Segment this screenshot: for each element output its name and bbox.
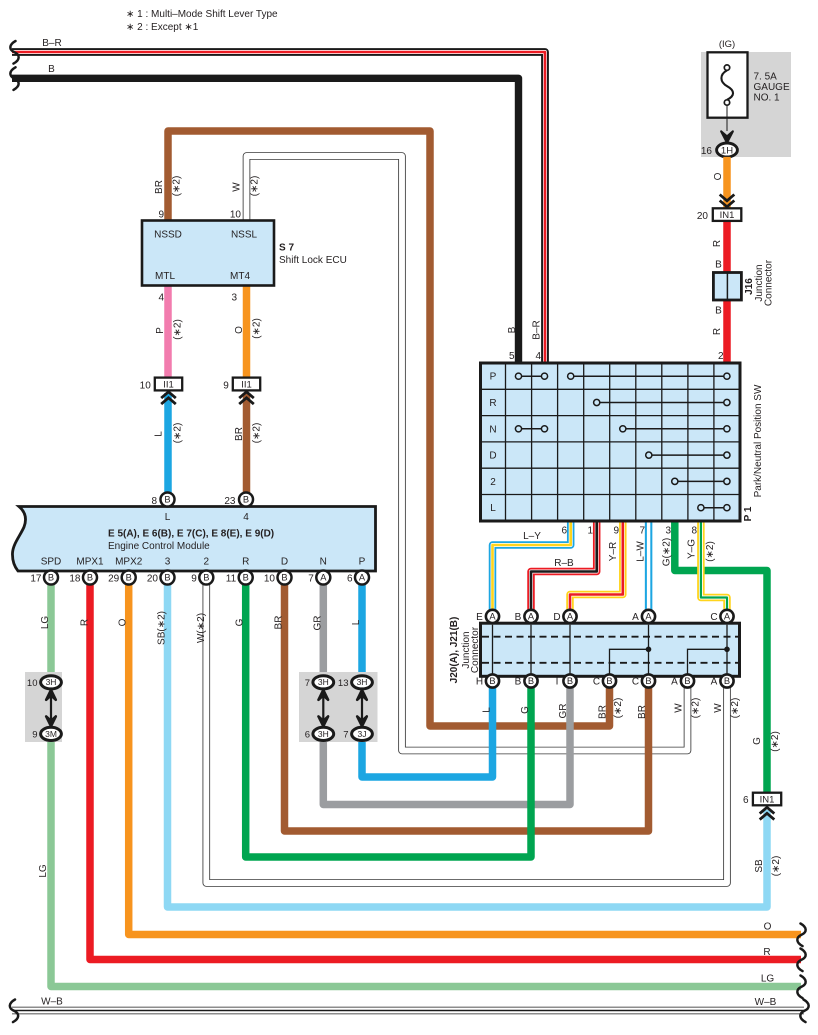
chevron into IN1 pin 20 <box>720 195 735 207</box>
svg-text:A: A <box>567 612 574 622</box>
svg-text:O: O <box>713 172 724 180</box>
junction connector J20(A) J21(B) <box>449 617 740 684</box>
svg-text:GR: GR <box>313 616 324 631</box>
svg-text:BR: BR <box>234 427 245 441</box>
wire O from 1H to IN1 pin 20 <box>713 157 727 208</box>
svg-text:R: R <box>489 398 496 409</box>
svg-text:C: C <box>710 612 717 623</box>
wire Y-G from P1 pin 8 to J20 pin C(A) <box>687 521 728 611</box>
svg-text:9: 9 <box>158 210 164 221</box>
svg-text:B: B <box>515 677 522 688</box>
svg-text:6: 6 <box>347 573 353 584</box>
svg-text:18: 18 <box>69 573 81 584</box>
svg-text:B: B <box>528 676 534 686</box>
svg-text:L: L <box>490 503 496 514</box>
svg-text:8: 8 <box>151 496 157 507</box>
P1 bottom pin numbers 6 1 9 7 3 8 <box>561 526 697 537</box>
svg-text:G: G <box>752 737 763 745</box>
svg-text:17: 17 <box>30 573 42 584</box>
J20 top pins E B D A C <box>476 610 733 623</box>
svg-text:P: P <box>490 372 497 383</box>
svg-text:D: D <box>553 612 560 623</box>
svg-text:W–B: W–B <box>755 997 777 1008</box>
svg-text:W: W <box>674 703 685 713</box>
contact row R <box>594 399 730 405</box>
svg-text:B: B <box>606 676 612 686</box>
svg-text:BR: BR <box>274 616 285 630</box>
svg-text:B: B <box>489 676 495 686</box>
svg-text:20: 20 <box>697 211 709 222</box>
svg-text:Shift Lock ECU: Shift Lock ECU <box>279 255 347 266</box>
svg-text:(∗2): (∗2) <box>730 698 741 719</box>
svg-text:SB: SB <box>754 859 765 873</box>
svg-text:A: A <box>528 612 535 622</box>
svg-text:G: G <box>520 706 531 714</box>
svg-text:LG: LG <box>761 974 775 985</box>
svg-text:SPD: SPD <box>41 557 62 568</box>
svg-text:Y–G: Y–G <box>687 539 698 559</box>
svg-text:3M: 3M <box>45 729 57 739</box>
svg-text:G(∗2): G(∗2) <box>662 538 673 566</box>
connector IN1 pin 20 <box>697 208 741 222</box>
svg-text:(∗2): (∗2) <box>173 319 184 340</box>
svg-text:I: I <box>556 677 559 688</box>
svg-text:Park/Neutral Position SW: Park/Neutral Position SW <box>753 384 764 497</box>
junction connector J16 <box>713 259 774 306</box>
svg-text:2: 2 <box>718 351 724 362</box>
svg-text:NO. 1: NO. 1 <box>754 93 781 104</box>
switch P1 Park/Neutral Position SW <box>481 363 741 521</box>
svg-text:IN1: IN1 <box>760 794 775 805</box>
ECM bottom pins 17 18 29 20 9 11 10 7 6 <box>30 571 369 585</box>
wire SB from ECM pin 3 to IN1 pin 6 <box>157 578 783 908</box>
svg-text:H: H <box>476 677 483 688</box>
svg-text:W: W <box>232 182 243 192</box>
ECU S7 Shift Lock ECU <box>142 210 347 304</box>
connector II1 pin 10 <box>140 378 183 392</box>
contact row 2 <box>672 478 730 484</box>
svg-text:23: 23 <box>224 496 236 507</box>
svg-text:(∗2): (∗2) <box>771 856 782 877</box>
svg-text:B: B <box>715 260 722 271</box>
wire B from left break to P1 pin 5 <box>12 64 519 363</box>
svg-text:SB(∗2): SB(∗2) <box>157 611 168 645</box>
svg-text:16: 16 <box>701 146 713 157</box>
svg-text:9: 9 <box>223 380 229 391</box>
svg-text:3H: 3H <box>318 729 329 739</box>
svg-text:B: B <box>281 573 287 583</box>
svg-text:9: 9 <box>32 729 37 740</box>
svg-text:P: P <box>359 557 366 568</box>
svg-text:(∗2): (∗2) <box>173 423 184 444</box>
chevron into II1 pin 9 <box>239 392 254 404</box>
ECU E5(A) E6(B) E7(C) E8(E) E9(D) Engine Control Module <box>12 507 375 572</box>
contact row N <box>515 426 730 432</box>
svg-text:W(∗2): W(∗2) <box>196 613 207 643</box>
svg-text:29: 29 <box>108 573 120 584</box>
svg-text:B: B <box>645 676 651 686</box>
wire P pink from S7 MTL to II1 pin 10 <box>155 286 184 379</box>
svg-text:LG: LG <box>40 616 51 630</box>
svg-text:3H: 3H <box>46 677 57 687</box>
svg-text:(∗2): (∗2) <box>252 423 263 444</box>
svg-text:3: 3 <box>165 557 171 568</box>
svg-text:Connector: Connector <box>470 626 481 673</box>
wire R long from ECM MPX1 to right break <box>80 578 802 960</box>
J20 bottom pins H B I C C A A <box>476 674 734 687</box>
svg-text:II1: II1 <box>241 379 252 390</box>
svg-text:2: 2 <box>490 477 496 488</box>
svg-text:C: C <box>593 677 600 688</box>
svg-text:B: B <box>48 64 55 75</box>
svg-text:5: 5 <box>509 351 515 362</box>
svg-text:B: B <box>715 306 722 317</box>
svg-text:BR: BR <box>154 180 165 194</box>
svg-text:S 7: S 7 <box>279 243 294 254</box>
svg-text:Engine Control Module: Engine Control Module <box>108 541 210 552</box>
wire G green from J20 pin B(B) to ECM pin R <box>235 578 532 858</box>
svg-text:(∗2): (∗2) <box>252 318 263 339</box>
wire W white *2 from ECM pin 2 to J20 pin A(B) <box>196 571 741 883</box>
note legend <box>126 9 278 33</box>
svg-text:B: B <box>684 676 690 686</box>
break symbol at W-B right end <box>800 1000 808 1023</box>
svg-text:L: L <box>154 431 165 437</box>
svg-text:R–B: R–B <box>554 558 574 569</box>
svg-text:2: 2 <box>204 557 210 568</box>
svg-text:MTL: MTL <box>155 271 175 282</box>
wire BR brown from II1 pin 9 to ECM pin 23 <box>234 393 263 500</box>
svg-text:1H: 1H <box>721 145 733 156</box>
wire W white from S7 pin 10 to J20 pin A(B) <box>232 156 702 751</box>
svg-text:IN1: IN1 <box>720 210 735 221</box>
svg-text:D: D <box>281 557 288 568</box>
wire W-B bottom <box>12 997 804 1011</box>
contact row P <box>515 373 730 379</box>
wire L-W from P1 pin 7 to J20 pin A(A) <box>636 521 649 611</box>
svg-text:G: G <box>235 618 246 626</box>
svg-text:L–W: L–W <box>636 541 647 562</box>
svg-text:A: A <box>320 573 327 583</box>
svg-text:II1: II1 <box>163 379 174 390</box>
connector II1 pin 9 <box>223 378 260 392</box>
svg-text:L–Y: L–Y <box>523 531 541 542</box>
svg-text:O: O <box>764 922 772 933</box>
svg-text:MT4: MT4 <box>230 271 250 282</box>
wire L-Y from P1 pin 6 to J20 pin E(A) <box>493 521 571 611</box>
svg-text:A: A <box>671 677 678 688</box>
svg-text:10: 10 <box>264 573 276 584</box>
svg-text:LG: LG <box>38 864 49 878</box>
svg-text:7. 5A: 7. 5A <box>754 72 778 83</box>
svg-text:R: R <box>242 557 249 568</box>
svg-text:3H: 3H <box>357 677 368 687</box>
svg-text:R: R <box>763 947 770 958</box>
svg-text:B: B <box>87 573 93 583</box>
svg-text:R: R <box>80 619 91 626</box>
svg-text:O: O <box>234 326 245 334</box>
svg-text:6: 6 <box>305 729 310 740</box>
svg-text:B: B <box>515 612 522 623</box>
svg-text:A: A <box>724 612 731 622</box>
svg-text:A: A <box>632 612 639 623</box>
svg-text:D: D <box>489 451 496 462</box>
wire O orange from S7 MT4 to II1 pin 9 <box>234 286 263 379</box>
svg-text:B: B <box>724 676 730 686</box>
svg-text:(∗2): (∗2) <box>613 698 624 719</box>
wire O long from ECM MPX2 to right break <box>118 578 802 935</box>
connector block 3H/3H/3J on GR and L wires <box>299 672 378 742</box>
break symbol at R right end <box>797 949 805 972</box>
wire R from IN1 pin 20 through J16 to P1 pin 2 <box>712 221 727 363</box>
svg-text:E: E <box>476 612 483 623</box>
svg-text:W–B: W–B <box>41 997 63 1008</box>
svg-text:B: B <box>567 676 573 686</box>
wire G green *2 from P1 pin 3 to IN1 pin 6 <box>662 521 782 793</box>
svg-text:11: 11 <box>226 573 237 584</box>
break symbol at LG right end <box>797 976 805 999</box>
svg-text:7: 7 <box>305 678 310 689</box>
svg-text:3H: 3H <box>318 677 329 687</box>
svg-text:R: R <box>712 240 723 247</box>
svg-text:(∗2): (∗2) <box>705 541 716 562</box>
svg-text:8: 8 <box>691 526 697 537</box>
svg-text:NSSL: NSSL <box>231 230 258 241</box>
wire B-R from left break to P1 pin 4 <box>12 38 545 363</box>
chevron into II1 pin 10 <box>161 392 176 404</box>
svg-text:9: 9 <box>613 526 619 537</box>
svg-text:Y–R: Y–R <box>608 542 619 561</box>
svg-text:6: 6 <box>561 526 567 537</box>
svg-text:Connector: Connector <box>764 259 775 306</box>
svg-text:3: 3 <box>231 293 237 304</box>
svg-text:GAUGE: GAUGE <box>754 82 790 93</box>
break symbol at W-B left end <box>10 1000 18 1023</box>
svg-text:B: B <box>507 326 518 333</box>
svg-text:A: A <box>489 612 496 622</box>
wire Y-R from P1 pin 9 to J20 pin D(A) <box>570 521 623 611</box>
fuse 7.5A GAUGE NO.1 <box>701 39 791 157</box>
svg-text:B: B <box>203 573 209 583</box>
P1 top pin numbers 5 4 2 <box>509 351 724 362</box>
svg-text:W: W <box>713 703 724 713</box>
svg-text:7: 7 <box>343 729 348 740</box>
svg-text:4: 4 <box>158 293 164 304</box>
svg-text:L: L <box>165 512 171 523</box>
svg-text:∗ 2 : Except ∗1: ∗ 2 : Except ∗1 <box>126 22 199 33</box>
svg-text:3J: 3J <box>358 729 367 739</box>
svg-text:L: L <box>351 619 362 625</box>
svg-text:B: B <box>164 573 170 583</box>
svg-text:13: 13 <box>338 678 349 689</box>
svg-text:L: L <box>482 707 493 713</box>
svg-text:J20(A), J21(B): J20(A), J21(B) <box>449 617 460 684</box>
ECM top pin 23 (B) <box>224 493 253 507</box>
wire BR brown from J20 pin C(B) to ECM pin D <box>274 578 649 832</box>
wire R-B from P1 pin 1 to J20 pin B(A) <box>531 521 597 611</box>
svg-text:E 5(A), E 6(B), E 7(C), E 8(E): E 5(A), E 6(B), E 7(C), E 8(E), E 9(D) <box>108 529 274 540</box>
chevron into IN1 pin 6 <box>760 807 775 819</box>
break symbol at O right end <box>797 924 805 947</box>
svg-text:9: 9 <box>191 573 197 584</box>
svg-text:(∗2): (∗2) <box>250 176 261 197</box>
wire fuse output to 1H <box>726 105 728 131</box>
svg-text:P: P <box>155 327 166 334</box>
svg-text:10: 10 <box>140 380 152 391</box>
svg-text:P 1: P 1 <box>743 506 754 521</box>
contact row D <box>646 452 730 458</box>
svg-text:B: B <box>243 573 249 583</box>
break symbol at B-R left end <box>10 41 18 64</box>
svg-text:4: 4 <box>535 351 541 362</box>
svg-text:∗ 1 : Multi–Mode Shift Lever T: ∗ 1 : Multi–Mode Shift Lever Type <box>126 9 278 20</box>
svg-text:A: A <box>359 573 366 583</box>
wire BR brown from S7 pin 9 to J20 pin C(B) <box>154 131 624 726</box>
connector block 3H/3M on LG wire <box>25 672 62 742</box>
ECM top pin 8 (B) <box>151 493 174 507</box>
svg-text:20: 20 <box>147 573 159 584</box>
svg-text:GR: GR <box>558 704 569 719</box>
svg-text:A: A <box>645 612 652 622</box>
svg-text:BR: BR <box>598 705 609 719</box>
svg-text:B: B <box>48 573 54 583</box>
svg-text:MPX1: MPX1 <box>76 557 104 568</box>
svg-text:R: R <box>712 328 723 335</box>
svg-text:10: 10 <box>27 678 38 689</box>
svg-text:1: 1 <box>587 526 593 537</box>
svg-text:N: N <box>320 557 327 568</box>
svg-text:BR: BR <box>637 705 648 719</box>
wire GR gray from J20 pin I(B) to ECM pin N <box>313 578 571 805</box>
wire LG from ECM SPD to right break <box>38 578 801 987</box>
svg-text:(IG): (IG) <box>719 39 735 50</box>
svg-text:B–R: B–R <box>532 320 543 339</box>
svg-text:C: C <box>632 677 639 688</box>
svg-text:4: 4 <box>243 512 249 523</box>
svg-text:NSSD: NSSD <box>154 230 182 241</box>
svg-text:7: 7 <box>639 526 645 537</box>
svg-text:10: 10 <box>230 210 242 221</box>
connector IN1 pin 6 <box>743 793 781 807</box>
contact row L <box>698 505 730 511</box>
svg-text:N: N <box>489 424 496 435</box>
svg-text:(∗2): (∗2) <box>691 698 702 719</box>
svg-text:7: 7 <box>308 573 314 584</box>
P1 designator label <box>743 384 764 521</box>
connector 1H pin 16 <box>701 143 738 157</box>
svg-text:A: A <box>711 677 718 688</box>
wire L blue from J20 pin H(B) to ECM pin P <box>351 578 493 778</box>
arrow into connector 1H <box>721 131 733 142</box>
break symbol at B left end <box>10 67 18 90</box>
svg-text:B–R: B–R <box>42 38 61 49</box>
svg-text:O: O <box>118 618 129 626</box>
svg-text:B: B <box>126 573 132 583</box>
svg-text:6: 6 <box>743 795 749 806</box>
svg-text:(∗2): (∗2) <box>172 176 183 197</box>
svg-text:(∗2): (∗2) <box>770 731 781 752</box>
wire L blue from II1 pin 10 to ECM pin 8 <box>154 393 184 500</box>
svg-text:B: B <box>164 495 170 505</box>
svg-text:MPX2: MPX2 <box>115 557 143 568</box>
svg-text:B: B <box>243 495 249 505</box>
svg-text:3: 3 <box>665 526 671 537</box>
